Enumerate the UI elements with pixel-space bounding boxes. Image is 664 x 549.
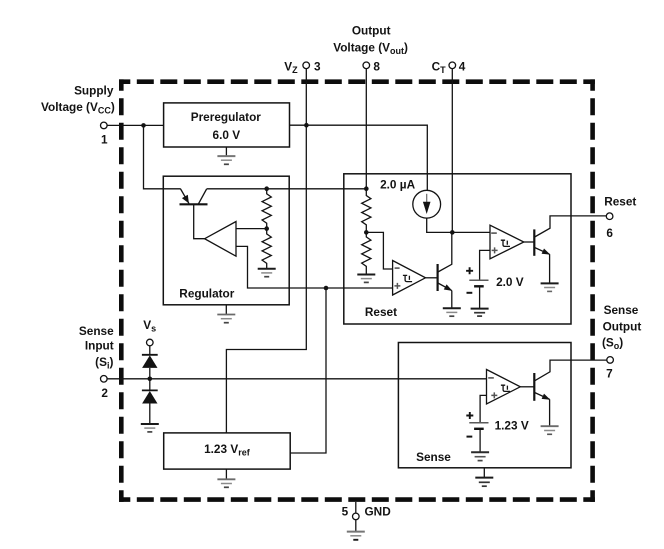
node regulator divider top xyxy=(264,186,269,191)
pin 3 (Vz) xyxy=(284,59,321,75)
wire D1 to sense node xyxy=(149,368,151,390)
ground under Vref box xyxy=(217,469,235,487)
pin 1 (Vcc) xyxy=(41,84,115,147)
svg-text:Voltage (Vout): Voltage (Vout) xyxy=(333,40,408,56)
svg-text:(Si): (Si) xyxy=(95,355,113,371)
svg-text:2.0 V: 2.0 V xyxy=(496,275,524,289)
ground Q3 emitter xyxy=(541,283,559,291)
wire regulator output line to Vout node xyxy=(207,188,367,190)
svg-text:Sense: Sense xyxy=(79,324,114,338)
ground under regulator box xyxy=(217,305,235,323)
wire Vref output up to feedback node xyxy=(290,288,326,453)
wire pin1 to preregulator xyxy=(107,124,164,126)
pin 5 (GND) xyxy=(342,502,392,531)
node regulator divider tap xyxy=(264,226,269,231)
transistor Q1 (regulator PNP pass) xyxy=(180,189,208,239)
svg-text:Preregulator: Preregulator xyxy=(191,110,262,124)
svg-text:7: 7 xyxy=(606,367,613,381)
node Vs xyxy=(143,318,156,346)
diode D2 (clamp to ground) xyxy=(142,390,158,403)
resistor reset divider upper xyxy=(362,189,371,233)
pin 2 (Sense Input) xyxy=(79,324,114,400)
resistor regulator divider lower xyxy=(262,229,271,269)
transistor Q3 (reset output driver) xyxy=(534,216,606,283)
svg-text:8: 8 xyxy=(373,59,380,73)
svg-text:Sense: Sense xyxy=(416,450,451,464)
battery 1.23V reference xyxy=(466,412,529,452)
ground regulator divider xyxy=(258,269,276,277)
comparator U1 (reset lower) xyxy=(393,261,426,296)
block Preregulator 6.0V xyxy=(164,103,290,147)
svg-text:1.23 V: 1.23 V xyxy=(495,418,529,432)
ground under preregulator xyxy=(217,147,235,164)
svg-text:2: 2 xyxy=(101,386,108,400)
ground Q4 emitter xyxy=(541,426,559,434)
svg-text:GND: GND xyxy=(365,504,392,518)
svg-text:Vs: Vs xyxy=(143,318,156,334)
transistor Q4 (sense output driver) xyxy=(534,360,607,426)
diode D1 (clamp to Vs) xyxy=(142,355,158,368)
pin 8 (Vout) xyxy=(333,24,408,74)
node timing junction CT xyxy=(450,230,455,235)
wire timing node to comparator U2 xyxy=(452,231,490,233)
ground reset divider xyxy=(357,275,375,283)
svg-text:Sense: Sense xyxy=(604,303,639,317)
node junction preregulator/Vz xyxy=(304,123,309,128)
block Reset box xyxy=(344,174,571,324)
svg-text:1.23 Vref: 1.23 Vref xyxy=(204,442,251,458)
svg-text:3: 3 xyxy=(314,59,321,73)
wire junction down to regulator xyxy=(144,125,181,188)
wire current source to timing node xyxy=(427,218,453,232)
svg-text:1: 1 xyxy=(101,133,108,147)
wire U2 plus input to 2.0V reference xyxy=(480,250,490,280)
svg-text:Reset: Reset xyxy=(604,194,636,208)
op-amp A1 (regulator error amp) xyxy=(205,222,236,257)
svg-text:5: 5 xyxy=(342,504,349,518)
block 1.23 Vref xyxy=(164,433,291,469)
svg-text:2.0 µA: 2.0 µA xyxy=(380,178,415,192)
node junction pin1/regulator branch xyxy=(141,123,146,128)
block Sense box xyxy=(398,343,571,468)
ground clamp diodes xyxy=(141,424,159,432)
svg-text:6.0 V: 6.0 V xyxy=(213,128,241,142)
svg-text:Voltage (VCC): Voltage (VCC) xyxy=(41,100,115,116)
wire D2 to ground xyxy=(149,404,151,424)
wire pin3 down to 1.23 Vref xyxy=(226,69,306,433)
node reset divider tap xyxy=(364,230,369,235)
svg-text:Output: Output xyxy=(603,320,642,334)
svg-text:6: 6 xyxy=(606,226,613,240)
wire U1 output to Q2 base xyxy=(426,277,438,279)
svg-text:Reset: Reset xyxy=(365,305,397,319)
svg-text:VZ: VZ xyxy=(284,59,298,75)
ground under sense box xyxy=(475,468,493,486)
wire preregulator output to current source xyxy=(290,125,428,190)
wire A1 bottom input to feedback node xyxy=(236,246,393,288)
ground 2.0V battery xyxy=(471,309,489,317)
comparator U3 (sense) xyxy=(487,370,521,405)
transistor Q2 (reset timing discharge) xyxy=(438,232,453,308)
wire U3 output to Q4 base xyxy=(520,386,534,388)
pin 6 (Reset) xyxy=(604,194,636,240)
IC boundary dashed border xyxy=(119,79,595,502)
battery 2.0V reference xyxy=(466,267,524,308)
wire pin2 to sense comparator xyxy=(107,378,486,380)
current source 2.0uA xyxy=(380,178,441,219)
ground pin 5 xyxy=(347,532,365,540)
svg-text:Supply: Supply xyxy=(74,84,114,98)
svg-text:4: 4 xyxy=(459,59,466,73)
resistor regulator divider upper xyxy=(262,189,271,229)
wire pin8 down to Vout node xyxy=(365,69,367,189)
wire reset tap to comparator U1 xyxy=(366,232,392,269)
svg-text:(So): (So) xyxy=(602,335,623,351)
wire A1 top input to divider tap xyxy=(236,228,267,230)
node junction sense input/clamp diodes xyxy=(148,377,153,382)
svg-text:Output: Output xyxy=(352,24,391,38)
ground Q2 emitter xyxy=(443,308,461,316)
wire U3 plus input to 1.23V reference xyxy=(480,395,486,422)
node junction feedback/Vref xyxy=(324,286,329,291)
svg-text:CT: CT xyxy=(432,59,447,75)
pin 4 (CT) xyxy=(432,59,466,75)
comparator U2 (reset output) xyxy=(490,225,524,259)
svg-text:Input: Input xyxy=(85,339,114,353)
block Regulator box xyxy=(163,176,289,305)
resistor reset divider lower xyxy=(362,232,371,274)
node junction Vout/pin8/reset divider xyxy=(364,186,369,191)
pin 7 (Sense Output) xyxy=(602,303,641,381)
wire Vs to diode D1 xyxy=(149,346,151,355)
ground 1.23V battery xyxy=(471,452,489,460)
wire pin4 down to timing node xyxy=(451,69,453,233)
wire U2 output to Q3 base xyxy=(524,241,535,243)
svg-text:Regulator: Regulator xyxy=(179,287,234,301)
